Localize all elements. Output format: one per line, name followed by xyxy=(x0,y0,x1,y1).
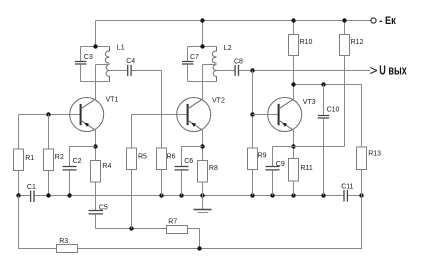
wire: emitter node to C6 xyxy=(182,146,203,148)
svg-text:R2: R2 xyxy=(55,154,64,161)
svg-text:C1: C1 xyxy=(27,184,36,191)
svg-text:C3: C3 xyxy=(84,54,93,61)
wire: tank2 bottom xyxy=(188,81,217,83)
inductor L1 xyxy=(105,47,109,82)
capacitor C8 xyxy=(235,65,238,76)
node: VT1 emitter junction xyxy=(93,144,97,148)
svg-text:C7: C7 xyxy=(190,54,199,61)
wire: R5 top lead xyxy=(131,115,133,148)
wire: VT3 collector vertical xyxy=(293,85,295,100)
wire: R10 bottom to collector node xyxy=(293,56,295,85)
node: rail-tank2 junction xyxy=(200,18,204,22)
wire: main bus left segment xyxy=(19,195,31,197)
wire: tank2 inner tap xyxy=(203,64,217,66)
ground symbol xyxy=(194,196,212,213)
wire: emitter node to C2 xyxy=(70,146,96,148)
svg-text:R13: R13 xyxy=(368,151,381,158)
wire: main bus middle segment xyxy=(35,195,344,197)
node: tank1 feed junction xyxy=(93,44,97,48)
wire: R11 bottom lead xyxy=(293,181,295,196)
wire: VT1 collector vertical xyxy=(95,65,97,100)
wire: L1 tap to C4 xyxy=(110,70,128,72)
svg-text:R12: R12 xyxy=(351,39,364,46)
svg-text:C8: C8 xyxy=(234,58,243,65)
resistor R7 xyxy=(167,226,188,234)
capacitor C2 xyxy=(63,167,77,170)
svg-text:C4: C4 xyxy=(126,58,135,65)
capacitor C10 xyxy=(318,116,329,119)
resistor R1 xyxy=(14,149,24,171)
svg-text:C10: C10 xyxy=(327,107,340,114)
node: bus R8/ground junction xyxy=(200,193,204,197)
node: bus R2 junction xyxy=(46,193,50,197)
node: tank2 feed junction xyxy=(200,44,204,48)
svg-text:VT2: VT2 xyxy=(212,98,225,105)
wire: R10 top lead xyxy=(293,21,295,35)
svg-text:C9: C9 xyxy=(276,161,285,168)
wire: VT1 emitter vertical xyxy=(95,130,97,160)
node: bus R11 junction xyxy=(291,193,295,197)
node: bus R13 junction xyxy=(359,193,363,197)
svg-text:C6: C6 xyxy=(184,158,193,165)
svg-text:R1: R1 xyxy=(25,155,34,162)
capacitor C9 xyxy=(266,167,280,170)
transistor VT3 xyxy=(268,98,302,132)
resistor R3 xyxy=(57,245,78,253)
resistor R5 xyxy=(127,148,137,170)
node: output/R9 junction xyxy=(250,68,254,72)
node: bus C6 junction xyxy=(179,193,183,197)
svg-text:R5: R5 xyxy=(138,153,147,160)
wire: bottom bus xyxy=(78,196,362,249)
wire: VT2 emitter vertical xyxy=(202,130,204,160)
svg-text:R9: R9 xyxy=(258,153,267,160)
node: bus R9 junction xyxy=(250,193,254,197)
transistor VT1 xyxy=(70,98,104,132)
wire: R2 top lead xyxy=(48,115,50,150)
svg-text:R11: R11 xyxy=(300,165,312,172)
svg-text:R4: R4 xyxy=(102,163,111,170)
wire: C10 top lead xyxy=(323,85,325,116)
wire: left drop to R3 xyxy=(19,196,57,249)
wire: R2 bottom lead xyxy=(48,171,50,196)
wire: C2 bottom lead xyxy=(69,170,71,195)
resistor R2 xyxy=(44,149,54,171)
node: VT2 emitter junction xyxy=(200,144,204,148)
node: bottom bus R7 junction xyxy=(197,246,201,250)
wire: tank1 left upper xyxy=(80,47,82,62)
wire: tank2 left lower xyxy=(187,64,189,81)
wire: top supply rail xyxy=(96,20,371,22)
svg-text:U вых: U вых xyxy=(379,62,407,77)
wire: emitter node line to R12 drop xyxy=(273,146,345,148)
wire: R7 right lead down xyxy=(188,229,200,249)
wire: tank1 bottom xyxy=(81,81,110,83)
wire: L2 tap to C8 xyxy=(217,70,235,72)
wire: C5 bottom lead xyxy=(95,214,97,228)
wire: R8 bottom lead xyxy=(202,182,204,196)
wire: R5 bottom vertical xyxy=(131,170,133,229)
svg-text:C11: C11 xyxy=(341,184,353,191)
capacitor C6 xyxy=(175,167,189,170)
terminal: -Ek supply xyxy=(371,18,376,23)
capacitor C1 xyxy=(31,191,34,203)
svg-text:R3: R3 xyxy=(59,238,68,245)
node: C10 top junction xyxy=(321,82,325,86)
wire: C6 top lead xyxy=(181,147,183,167)
transistor VT2 xyxy=(177,98,211,132)
node: R5 bottom junction xyxy=(129,226,133,230)
wire: tank1 top xyxy=(81,46,110,48)
capacitor C5 xyxy=(89,211,104,214)
svg-text:L1: L1 xyxy=(117,45,125,52)
arrow: U vyh output xyxy=(370,68,377,74)
wire: tank1 inner tap xyxy=(96,64,110,66)
svg-text:VT3: VT3 xyxy=(303,99,316,106)
resistor R6 xyxy=(157,148,167,170)
wire: R12 top lead xyxy=(344,21,346,35)
capacitor C11 xyxy=(344,190,347,202)
wire: R1 top lead xyxy=(18,115,20,150)
wire: C8 to output arrow xyxy=(239,70,370,72)
wire: C9 top lead xyxy=(272,147,274,167)
wire: main bus right segment xyxy=(348,195,362,197)
node: rail-R12 junction xyxy=(342,18,346,22)
node: R2 top junction xyxy=(46,112,50,116)
wire: VT3 emitter vertical xyxy=(293,130,295,158)
capacitor C7 xyxy=(182,62,194,65)
capacitor C4 xyxy=(128,65,131,76)
svg-text:R10: R10 xyxy=(300,39,313,46)
svg-text:R7: R7 xyxy=(168,219,177,226)
wire: VT2 base line xyxy=(132,114,188,116)
wire: collector node line xyxy=(294,84,362,86)
wire: rail to tank1 feed xyxy=(95,21,97,47)
node: bus C9 junction xyxy=(270,193,274,197)
wire: tank2 left upper xyxy=(187,47,189,62)
resistor R12 xyxy=(340,35,350,56)
wire: tank2 top xyxy=(188,46,217,48)
svg-text:VT1: VT1 xyxy=(106,96,119,103)
resistor R10 xyxy=(289,35,299,56)
wire: VT2 collector vertical xyxy=(202,65,204,100)
wire: VT1 base line xyxy=(19,114,81,116)
node: bus R1/R3 junction xyxy=(16,193,20,197)
resistor R8 xyxy=(198,161,208,183)
wire: output drop to R9 xyxy=(252,71,254,148)
wire: C4 down to R6 xyxy=(161,71,163,148)
resistor R13 xyxy=(357,147,367,170)
wire: R1 bottom lead xyxy=(18,171,20,196)
wire: tank1 left lower xyxy=(80,64,82,81)
resistor R11 xyxy=(289,159,299,182)
node: bus C2 junction xyxy=(67,193,71,197)
wire: VT3 base lead xyxy=(253,114,279,116)
svg-text:C2: C2 xyxy=(73,158,82,165)
wire: R9 bottom lead xyxy=(252,170,254,196)
node: VT3 base junction xyxy=(250,112,254,116)
wire: C6 bottom lead xyxy=(181,170,183,195)
wire: R13 top lead xyxy=(361,85,363,147)
svg-text:L2: L2 xyxy=(224,45,232,52)
node: rail-R10 junction xyxy=(291,18,295,22)
wire: C4 to corner xyxy=(132,70,162,72)
wire: C10 bottom lead xyxy=(323,118,325,195)
inductor L2 xyxy=(212,47,216,82)
node: VT3 emitter junction xyxy=(291,144,295,148)
wire: C5/R5/R7 node line xyxy=(96,228,167,230)
capacitor C3 xyxy=(75,62,87,65)
resistor R9 xyxy=(248,148,258,170)
wire: R4 bottom to C5 xyxy=(95,182,97,211)
node: collector/R10 junction xyxy=(291,82,295,86)
wire: C9 bottom lead xyxy=(272,170,274,195)
svg-text:R6: R6 xyxy=(167,153,176,160)
node: bus R6 junction xyxy=(159,193,163,197)
wire: R12 bottom vertical xyxy=(344,56,346,147)
wire: rail to tank2 feed xyxy=(202,21,204,47)
svg-text:- Ек: - Ек xyxy=(379,15,396,27)
resistor R4 xyxy=(91,161,101,183)
svg-text:C5: C5 xyxy=(99,204,108,211)
wire: C2 top lead xyxy=(69,147,71,167)
svg-text:R8: R8 xyxy=(209,165,218,172)
wire: R13 bottom lead xyxy=(361,169,363,195)
wire: R6 bottom lead xyxy=(161,169,163,195)
node: bus C10 junction xyxy=(321,193,325,197)
